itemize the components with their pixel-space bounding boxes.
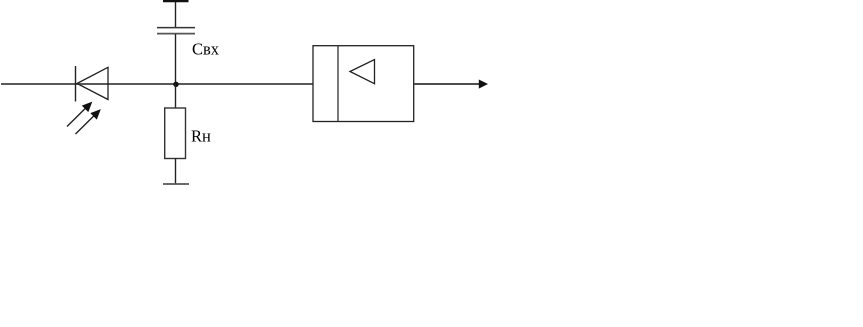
wire resistor to ground bbox=[175, 159, 177, 185]
wire top bar to capacitor bbox=[175, 2, 177, 27]
amplifier triangle bbox=[350, 60, 375, 84]
light arrow 2 bbox=[76, 109, 101, 134]
output arrowhead bbox=[479, 80, 488, 89]
photodiode cathode bar bbox=[75, 66, 77, 102]
amplifier box bbox=[313, 46, 414, 122]
wire main input line bbox=[1, 83, 313, 85]
capacitor Cвх plates bbox=[157, 28, 195, 34]
capacitor top terminal bar bbox=[163, 0, 189, 2]
node junction dot bbox=[173, 82, 178, 87]
ground bbox=[163, 183, 189, 185]
photodiode triangle bbox=[77, 67, 108, 99]
amplifier input divider bbox=[337, 46, 339, 122]
wire capacitor to node bbox=[175, 34, 177, 85]
wire output bbox=[414, 83, 480, 85]
svg-text:Rн: Rн bbox=[191, 127, 211, 146]
light arrow 1 bbox=[67, 102, 92, 127]
wire node to resistor bbox=[175, 84, 177, 108]
resistor Rн body bbox=[165, 108, 186, 159]
svg-text:Свх: Свх bbox=[192, 40, 220, 59]
